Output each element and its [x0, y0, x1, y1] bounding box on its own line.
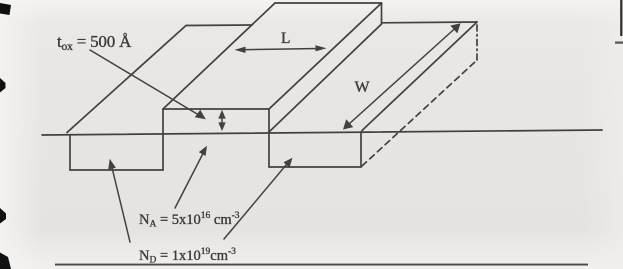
gate bar top-left edge (perspective) — [163, 3, 275, 109]
substrate back edge, right visible segment — [382, 21, 478, 24]
substrate left top edge (perspective) — [67, 26, 186, 133]
oxide thickness double arrow — [221, 114, 223, 126]
gate bar back-right vertical edge — [381, 3, 383, 23]
tox pointer arrow — [90, 50, 201, 116]
right well right edge — [360, 132, 362, 167]
scan tick right edge — [615, 42, 623, 44]
gate block top edge — [163, 108, 269, 110]
shared vertical: gate block right edge + right well left edge — [268, 109, 270, 167]
substrate back edge, left visible segment — [186, 24, 252, 27]
scan line bottom — [55, 264, 588, 266]
shared vertical: left well right edge + gate block left edge — [162, 109, 164, 170]
gate bar top back edge — [275, 2, 382, 4]
left well left edge — [69, 135, 71, 170]
NA/ND pointer arrow to left well — [111, 164, 130, 243]
right well bottom — [269, 166, 361, 168]
hidden back-right vertical edge (dashed) — [476, 23, 478, 60]
surface line (silicon top surface, long horizontal) — [42, 130, 602, 135]
svg-text:W: W — [355, 79, 371, 96]
scan mark left edge lower — [0, 208, 6, 224]
scan mark left edge upper — [0, 78, 6, 93]
gate bar bottom-right edge on surface — [269, 24, 382, 132]
NA pointer arrow to substrate — [175, 151, 205, 208]
left well bottom — [70, 169, 163, 171]
hidden bottom-right edge (dashed) — [362, 61, 476, 166]
gate bar top-right edge (perspective) — [269, 3, 382, 109]
L dimension double arrow — [241, 49, 320, 50]
substrate right top edge (perspective) — [362, 22, 477, 131]
scan line right edge top — [620, 0, 622, 36]
scan mark bottom-left corner — [0, 253, 11, 269]
W dimension double arrow — [349, 28, 456, 125]
scan mark top-left corner — [0, 3, 11, 15]
svg-text:L: L — [281, 30, 290, 47]
ND pointer arrow to right well — [224, 162, 289, 240]
